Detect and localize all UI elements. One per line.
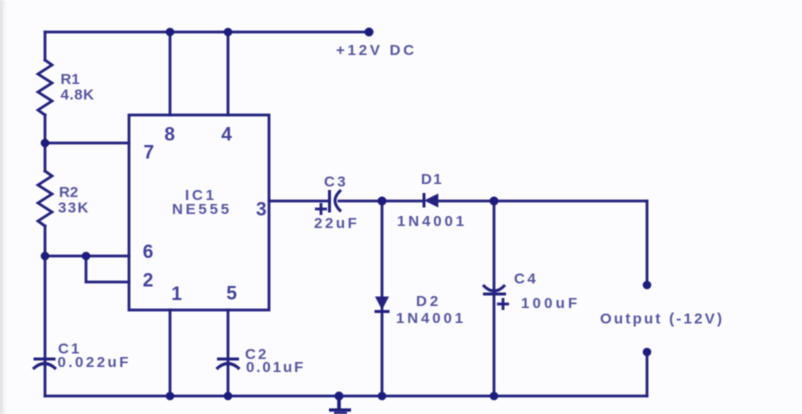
wire left rail upper [44, 32, 47, 60]
diode D1 [424, 193, 438, 208]
node pin1 bottom [166, 392, 175, 401]
C4 plus [497, 298, 509, 310]
node D1-C4 [490, 197, 499, 206]
node pin4 top [224, 28, 233, 37]
svg-text:+12V DC: +12V DC [336, 42, 417, 59]
svg-text:3: 3 [256, 199, 267, 220]
svg-text:5: 5 [226, 284, 237, 305]
resistor R1 [38, 60, 52, 115]
node output+ [643, 281, 652, 290]
resistor R2 [38, 171, 52, 226]
svg-text:2: 2 [143, 271, 154, 292]
wire pin5 [227, 310, 230, 396]
node +12V terminal [365, 28, 374, 37]
svg-text:4.8K: 4.8K [61, 87, 95, 104]
wire D2 branch [381, 201, 384, 396]
capacitor C3 [330, 190, 342, 213]
node pin6/2 [82, 252, 91, 261]
svg-text:1N4001: 1N4001 [396, 310, 466, 327]
node pin7 [41, 139, 50, 148]
wire right branch lower [646, 352, 649, 396]
node output- [643, 348, 652, 357]
wire pin2 [86, 256, 129, 282]
svg-text:D2: D2 [416, 293, 441, 310]
C3 plus [315, 203, 327, 215]
svg-text:1: 1 [171, 284, 182, 305]
wire R1 to R2 [44, 115, 47, 171]
ground [329, 396, 351, 414]
svg-text:7: 7 [144, 143, 155, 164]
svg-text:R1: R1 [61, 71, 80, 88]
wire pin1 [169, 310, 172, 396]
node C4 bottom [490, 392, 499, 401]
wire top rail [45, 31, 369, 34]
node pin5 bottom [224, 392, 233, 401]
op-amp U1 [129, 115, 269, 310]
node C3-D1-D2 [378, 197, 387, 206]
wire pin4 [227, 32, 230, 115]
svg-text:R2: R2 [59, 184, 78, 201]
svg-text:0.01uF: 0.01uF [246, 359, 305, 376]
capacitor C2 [217, 359, 240, 369]
wire right branch upper [646, 201, 649, 285]
svg-text:C3: C3 [324, 173, 348, 190]
diode D2 [375, 297, 390, 312]
svg-text:100uF: 100uF [521, 295, 580, 312]
wire bottom rail [45, 395, 647, 398]
wire pin8 [169, 32, 172, 115]
wire C4 branch [493, 201, 496, 396]
wire pin3 to C3 [269, 200, 329, 203]
capacitor C1 [33, 359, 56, 369]
svg-text:4: 4 [221, 125, 232, 146]
svg-text:Output (-12V): Output (-12V) [600, 311, 724, 328]
svg-text:0.022uF: 0.022uF [58, 354, 131, 371]
node D2 bottom [378, 392, 387, 401]
node pin6 left [41, 252, 50, 261]
wire C3 to node [339, 200, 424, 203]
svg-text:8: 8 [164, 125, 175, 146]
svg-text:1N4001: 1N4001 [397, 213, 467, 230]
wire D1 to corner [438, 200, 647, 203]
svg-text:22uF: 22uF [314, 215, 359, 232]
svg-text:33K: 33K [58, 200, 90, 217]
wire pin7 [45, 142, 129, 145]
capacitor C4 [483, 285, 506, 294]
svg-text:6: 6 [143, 242, 154, 263]
svg-text:C4: C4 [514, 271, 538, 288]
wire left rail lower [44, 226, 47, 396]
svg-text:NE555: NE555 [172, 201, 232, 218]
wire pin6 [45, 255, 129, 258]
svg-text:D1: D1 [421, 171, 443, 188]
node pin8 top [166, 28, 175, 37]
node ground [335, 392, 344, 401]
